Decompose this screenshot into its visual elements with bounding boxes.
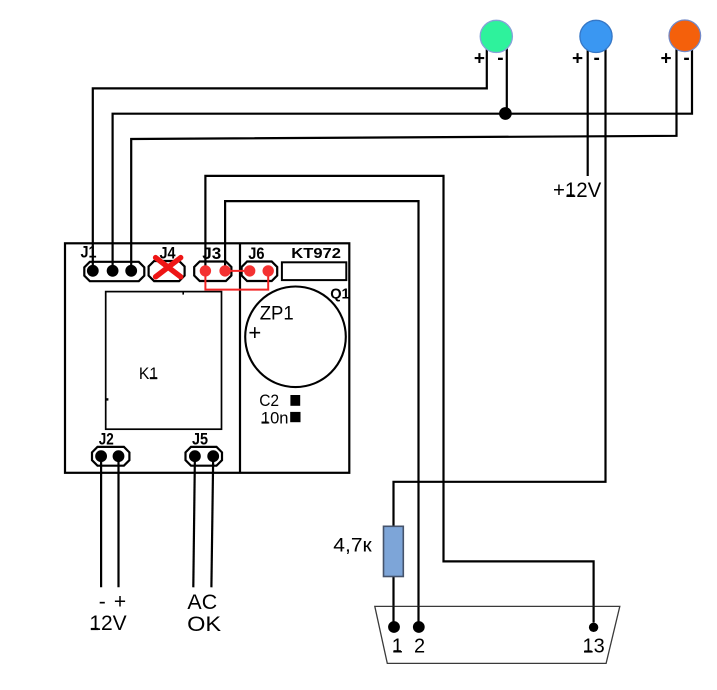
svg-text:-: - [99, 590, 106, 613]
svg-text:KT972: KT972 [291, 245, 341, 262]
svg-text:+: + [248, 320, 261, 345]
svg-text:-: - [683, 48, 689, 69]
svg-text:C2: C2 [259, 391, 279, 410]
svg-text:OK: OK [187, 613, 221, 636]
svg-text:J3: J3 [202, 244, 221, 263]
svg-text:K1: K1 [139, 364, 158, 383]
svg-text:2: 2 [414, 635, 425, 657]
svg-text:+: + [114, 590, 126, 613]
svg-text:J4: J4 [160, 244, 176, 263]
svg-text:12V: 12V [89, 612, 126, 635]
svg-text:ZP1: ZP1 [260, 303, 294, 324]
svg-text:1: 1 [392, 635, 403, 657]
svg-text:AC: AC [187, 591, 217, 614]
svg-text:J6: J6 [248, 244, 264, 263]
svg-text:+: + [474, 49, 485, 70]
svg-text:-: - [594, 48, 600, 69]
svg-text:+12V: +12V [553, 179, 601, 202]
svg-text:J2: J2 [99, 429, 114, 448]
svg-text:+: + [572, 49, 583, 70]
svg-text:4,7к: 4,7к [333, 535, 372, 557]
svg-text:+: + [661, 49, 672, 70]
svg-text:J5: J5 [192, 429, 208, 448]
svg-text:J1: J1 [81, 243, 97, 262]
svg-text:10n: 10n [261, 409, 289, 428]
svg-text:Q1: Q1 [330, 285, 350, 302]
svg-text:-: - [497, 48, 503, 69]
svg-text:13: 13 [582, 636, 604, 658]
